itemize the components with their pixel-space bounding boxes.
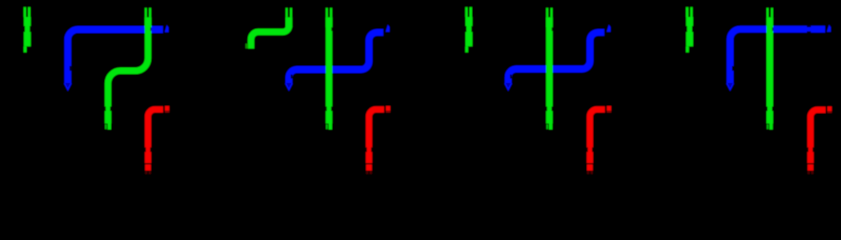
connector stub J1 (panel 1): [24, 7, 31, 52]
wire red net R4 (panel 4): [807, 106, 832, 174]
wire blue net B2 (panel 2): [285, 25, 389, 91]
connector stub J4 (panel 4): [686, 7, 693, 52]
wire green net G2 vertical (panel 2): [326, 8, 333, 130]
wire blue net B1 (panel 1): [64, 25, 168, 90]
connector stub J3 (panel 3): [465, 7, 472, 52]
wire green net G3 vertical (panel 3): [546, 8, 553, 130]
wire red net R3 (panel 3): [587, 106, 612, 174]
wire blue net B3 (panel 3): [505, 25, 611, 91]
wire red net R2 (panel 2): [366, 106, 391, 174]
wire red net R1 (panel 1): [145, 106, 170, 174]
wire green net G1 (S-jog, panel 1): [105, 8, 152, 130]
wire blue net B4 (panel 4): [727, 25, 831, 91]
wire green net G4 vertical (panel 4): [766, 8, 773, 130]
wire green pigtail (panel 2): [245, 8, 292, 49]
